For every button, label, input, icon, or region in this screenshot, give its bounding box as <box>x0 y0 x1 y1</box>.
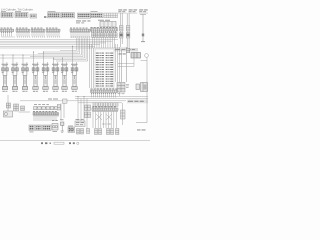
condenser C1 <box>100 22 116 28</box>
wire right-1 <box>120 13 122 47</box>
ignition coil IC3 <box>22 64 29 90</box>
connector strip S7 <box>91 89 118 94</box>
pin labels S1-S4 <box>2 36 91 39</box>
connector strip S3 <box>31 28 45 33</box>
bottom connector pair A <box>77 129 80 135</box>
sub-harness box K3 <box>117 83 125 93</box>
relay RB1 <box>52 124 58 131</box>
pin wires S7 <box>92 94 116 98</box>
connector strip S4 <box>46 28 60 33</box>
bus wires right <box>20 97 148 103</box>
wire v60 <box>61 103 64 120</box>
connector strip S5 <box>70 28 90 33</box>
connector strip S6 <box>91 27 118 32</box>
wire pair K1 <box>122 47 127 82</box>
relay output wires <box>118 58 147 67</box>
bus wires upper <box>0 40 128 49</box>
inline box R0 <box>126 48 130 53</box>
wire right-2 <box>127 13 129 53</box>
ignition coil IC6 <box>52 64 59 90</box>
bottom-right text <box>137 129 141 132</box>
bottom connector pair D <box>116 129 119 135</box>
inline connector right-1a <box>119 26 123 32</box>
relay label <box>119 53 122 56</box>
pin wires S6 <box>93 37 115 48</box>
ignition coil IC7 <box>61 64 68 90</box>
svg-text:LH Cylinder, 7th Cylinder: LH Cylinder, 7th Cylinder <box>1 7 33 11</box>
terminator right-3 <box>141 41 145 43</box>
fuse F1 <box>14 104 19 111</box>
net label TR3 <box>139 9 143 12</box>
sensor G1 wire <box>7 95 9 111</box>
connector strip S8 <box>92 107 118 112</box>
magneto end box <box>63 99 68 103</box>
ECM side wires <box>90 44 120 96</box>
relay box row <box>92 33 96 38</box>
bottom table BL1 <box>29 125 35 131</box>
pin wires S5 <box>71 33 89 38</box>
to-magneto text <box>48 98 52 101</box>
bottom text BC <box>70 128 72 131</box>
pre-strip boxes <box>93 103 97 106</box>
connector circle <box>145 54 149 58</box>
ECM header band <box>114 48 138 51</box>
junction block J1 <box>34 107 58 110</box>
connector strip S1 <box>1 28 14 33</box>
sub-harness box K4 <box>136 83 148 92</box>
bottom small parts <box>121 110 126 119</box>
connector table F1a <box>48 13 61 18</box>
wire bundle fan <box>0 38 89 61</box>
connector table F1b <box>61 13 74 18</box>
ECM terminal table <box>95 49 114 88</box>
bottom table BL4 <box>68 127 75 133</box>
wire v122 <box>122 103 124 125</box>
caption ignition text <box>76 20 81 23</box>
sensor G1 <box>4 111 13 117</box>
sensor G1 filter box <box>6 103 10 108</box>
connector table M3 <box>30 14 37 18</box>
wire v147 <box>136 61 147 123</box>
footer rule <box>0 140 150 142</box>
ignition coil IC1 <box>2 64 9 90</box>
net label TR1 <box>118 9 122 12</box>
To-harness band <box>127 100 148 104</box>
coil feed wires <box>3 46 76 68</box>
inline connector right-2b <box>126 33 130 39</box>
bottom table BL3 <box>43 125 52 131</box>
bottom table BL2 <box>36 125 42 131</box>
pin wires S2 <box>17 33 29 36</box>
resistor block <box>21 106 25 111</box>
splice mark <box>44 16 46 18</box>
inline connector right-2a <box>126 26 130 32</box>
pin wires S1 <box>2 33 12 36</box>
ignition coil IC5 <box>42 64 49 90</box>
footer nav marks <box>41 142 75 144</box>
crossover wires <box>96 114 112 124</box>
bottom box B2 <box>75 121 85 127</box>
connector table E2 <box>104 13 118 18</box>
net label TR2 <box>129 9 133 12</box>
ignition coil IC4 <box>32 64 39 90</box>
bottom connector pair C <box>107 129 110 135</box>
pin wires S4 <box>47 33 59 36</box>
ignition coil IC2 <box>12 64 19 90</box>
bottom connector pair B <box>95 129 98 135</box>
inline connector right-1b <box>119 33 123 39</box>
branch wires bottom-left <box>78 97 87 129</box>
pin wires S3 <box>32 33 44 36</box>
connector table F2 <box>78 13 91 18</box>
diode pack D1 <box>85 105 91 111</box>
connector strip S2 <box>16 28 30 33</box>
ignition coil IC8 <box>71 64 78 90</box>
connector table M1 <box>1 13 13 18</box>
pin wires S8 down <box>93 112 116 128</box>
relay R1 <box>131 53 141 59</box>
capacitor CB1 <box>61 122 64 132</box>
wire right-3 <box>140 15 146 42</box>
connector table E1 <box>91 13 104 18</box>
bottom connector pair A2 <box>87 129 90 134</box>
connector table M2 <box>15 13 28 18</box>
